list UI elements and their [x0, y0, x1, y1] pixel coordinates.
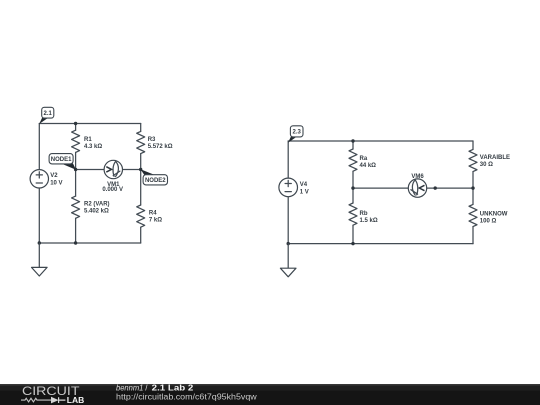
- svg-text:http://circuitlab.com/c6t7q95k: http://circuitlab.com/c6t7q95kh5vqw: [116, 392, 257, 401]
- svg-text:Ra: Ra: [360, 156, 368, 162]
- footer bar background: [0, 384, 540, 405]
- svg-text:VARAIBLE: VARAIBLE: [480, 155, 510, 161]
- svg-text:2.1: 2.1: [44, 111, 53, 117]
- wire middle junction to UNKNOW: [472, 188, 474, 204]
- svg-text:5.572 kΩ: 5.572 kΩ: [148, 144, 173, 150]
- node bottom-middle junction dot: [74, 241, 77, 244]
- wire left rail lower (V4 to bottom): [287, 197, 289, 244]
- voltmeter VM1: [102, 160, 123, 193]
- wire UNKNOW to bottom: [472, 227, 474, 244]
- wire middle horizontal right segment (VM1 to node2): [123, 169, 141, 171]
- svg-text:VM6: VM6: [411, 174, 424, 180]
- resistor R2 (VAR): [72, 196, 110, 218]
- wire top horizontal (left circuit): [39, 123, 140, 125]
- svg-text:2.1 Lab 2: 2.1 Lab 2: [152, 384, 194, 393]
- CircuitLab logo diode symbol: [51, 397, 65, 404]
- svg-text:100 Ω: 100 Ω: [480, 219, 497, 225]
- node top-Ra junction dot: [351, 139, 354, 142]
- CircuitLab logo resistor squiggle: [21, 398, 53, 402]
- svg-text:NODE2: NODE2: [145, 178, 166, 184]
- svg-text:R3: R3: [148, 137, 156, 143]
- svg-text:R4: R4: [149, 211, 157, 217]
- wire R2 to bottom: [75, 218, 77, 243]
- node flag NODE2: [141, 169, 168, 185]
- wire left rail upper (top to V2): [38, 124, 40, 170]
- footer title text: [116, 384, 194, 393]
- node NODE2 junction dot: [139, 168, 142, 171]
- node ground-right junction dot: [287, 242, 290, 245]
- svg-text:R2 (VAR): R2 (VAR): [84, 202, 110, 208]
- voltmeter VM6: [408, 174, 426, 197]
- wire middle horizontal left segment (Ra junction to VM6): [353, 187, 408, 189]
- wire middle junction to Rb: [352, 188, 354, 203]
- wire node2 to R4: [140, 170, 142, 206]
- resistor VARAIBLE: [469, 149, 510, 171]
- resistor R1: [72, 130, 103, 152]
- node flag 2.1: [39, 107, 54, 124]
- svg-text:V4: V4: [300, 182, 308, 188]
- node NODE1 junction dot: [74, 168, 77, 171]
- svg-text:30 Ω: 30 Ω: [480, 162, 493, 168]
- node ground-left junction dot: [38, 241, 41, 244]
- svg-text:Rb: Rb: [360, 211, 368, 217]
- svg-text:NODE1: NODE1: [51, 157, 72, 163]
- svg-text:V2: V2: [50, 173, 58, 179]
- node middle-Ra junction dot: [351, 186, 354, 189]
- resistor R3: [137, 131, 173, 153]
- svg-text:2.3: 2.3: [293, 130, 302, 136]
- voltage source V4: [279, 178, 309, 197]
- node A junction dot (top middle): [74, 122, 77, 125]
- node flag NODE1: [49, 154, 76, 170]
- wire middle branch upper lead (top wire to R1): [75, 124, 77, 131]
- ground (left circuit): [32, 243, 48, 276]
- svg-text:UNKNOW: UNKNOW: [480, 212, 508, 218]
- svg-text:R1: R1: [84, 137, 92, 143]
- wire right branch upper lead: [472, 141, 474, 149]
- node flag 2.3: [288, 126, 303, 143]
- resistor Ra: [349, 149, 376, 171]
- svg-text:1.5 kΩ: 1.5 kΩ: [360, 218, 378, 224]
- resistor R4: [137, 205, 163, 227]
- wire middle horizontal left segment (node1 to VM1): [76, 169, 105, 171]
- svg-text:44 kΩ: 44 kΩ: [360, 163, 377, 169]
- node right-of-VM6 junction dot: [434, 186, 437, 189]
- wire top horizontal (right circuit): [288, 140, 473, 142]
- wire left rail lower (V2 to bottom): [38, 188, 40, 243]
- svg-text:10 V: 10 V: [50, 181, 62, 187]
- svg-text:LAB: LAB: [67, 395, 85, 405]
- node right-branch-middle junction dot: [471, 186, 474, 189]
- wire right branch upper lead (top to R3): [140, 124, 142, 132]
- wire VARAIBLE to middle junction: [472, 172, 474, 189]
- svg-text:7 kΩ: 7 kΩ: [149, 218, 162, 224]
- wire node1 to R2: [75, 170, 77, 197]
- resistor Rb: [349, 203, 378, 225]
- wire left rail upper (top to V4): [287, 141, 289, 178]
- wire R4 to bottom: [140, 227, 142, 243]
- voltage source V2: [30, 170, 62, 188]
- svg-text:0.000 V: 0.000 V: [102, 187, 123, 193]
- wire Ra branch upper lead: [352, 141, 354, 149]
- wire Ra to middle junction: [352, 171, 354, 188]
- svg-text:5.402 kΩ: 5.402 kΩ: [84, 209, 109, 215]
- wire R3 to node2 junction: [140, 154, 142, 170]
- ground (right circuit): [280, 244, 296, 277]
- svg-text:1 V: 1 V: [300, 190, 309, 196]
- svg-text:bennm1: bennm1: [116, 384, 143, 393]
- node bottom-Rb junction dot: [351, 242, 354, 245]
- wire middle horizontal right segment (VM6 to right branch): [427, 187, 473, 189]
- wire bottom horizontal (right circuit): [288, 243, 473, 245]
- wire Rb to bottom: [352, 225, 354, 243]
- resistor UNKNOW: [469, 204, 508, 226]
- wire bottom horizontal (left circuit): [39, 242, 140, 244]
- wire R1 to node1 junction: [75, 152, 77, 169]
- svg-text:4.3 kΩ: 4.3 kΩ: [84, 144, 102, 150]
